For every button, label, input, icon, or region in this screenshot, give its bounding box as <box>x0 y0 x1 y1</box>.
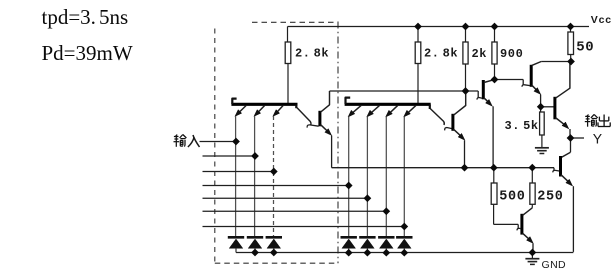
svg-text:50: 50 <box>576 40 594 56</box>
svg-text:3.5k: 3.5k <box>505 119 539 133</box>
svg-text:500: 500 <box>499 189 525 204</box>
svg-text:2.8k: 2.8k <box>295 46 329 60</box>
svg-text:2k: 2k <box>472 47 488 61</box>
svg-text:Vcc: Vcc <box>591 14 612 26</box>
svg-text:GND: GND <box>542 259 567 271</box>
svg-text:900: 900 <box>500 47 523 61</box>
svg-text:2.8k: 2.8k <box>424 47 458 61</box>
svg-text:Y: Y <box>593 131 603 147</box>
svg-text:tpd=3.5ns: tpd=3.5ns <box>42 5 129 29</box>
svg-text:Pd=39mW: Pd=39mW <box>42 41 133 65</box>
svg-text:250: 250 <box>537 189 563 204</box>
